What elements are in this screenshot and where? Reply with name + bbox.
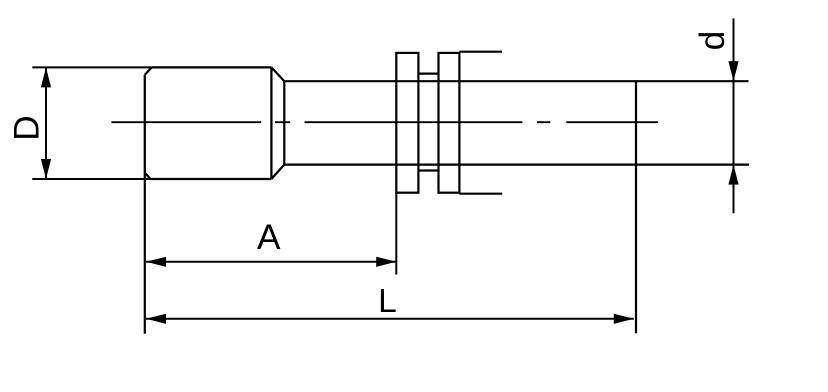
head-to-shaft taper top [271, 67, 284, 81]
dimension L extension line left [144, 179, 146, 334]
dimension D extension line bottom [32, 178, 150, 180]
head chamfer bottom-left [145, 173, 151, 179]
svg-text:D: D [7, 115, 46, 140]
head-to-shaft taper bottom [271, 165, 284, 179]
dimension A arrowhead right [376, 257, 396, 267]
ring 1 [396, 53, 418, 193]
shaft bottom edge (extends right as extension line for d) [284, 164, 749, 166]
dimension d arrowhead down [728, 61, 738, 81]
dimension L arrowhead right [614, 314, 634, 324]
shaft end cap [635, 81, 637, 164]
head left edge [144, 75, 146, 179]
shaft top edge (extends right as extension line for d) [284, 80, 748, 82]
sleeve bottom edge [418, 169, 438, 171]
dimension D arrowhead up [41, 67, 51, 87]
ring 2 [439, 53, 460, 193]
dimension A arrowhead left [146, 257, 166, 267]
dimension D label [7, 115, 46, 140]
dimension L extension line right [635, 165, 637, 334]
centerline [111, 121, 658, 123]
dimension D line [45, 67, 47, 179]
dimension L line [146, 318, 634, 320]
dimension D arrowhead down [41, 159, 51, 179]
dimension d arrowhead up [728, 165, 738, 185]
head bottom edge [150, 178, 271, 180]
svg-text:L: L [378, 283, 397, 320]
dimension D extension line top [32, 66, 151, 68]
head top edge [152, 66, 272, 68]
svg-text:d: d [693, 31, 732, 51]
head right edge [270, 67, 272, 179]
collar bottom line [459, 193, 502, 195]
collar top line [459, 51, 502, 53]
sleeve top edge [418, 72, 438, 74]
dimension d line [733, 18, 735, 213]
dimension A line [146, 261, 396, 263]
head chamfer top-left [145, 67, 152, 74]
dimension L arrowhead left [146, 314, 166, 324]
dimension A label [257, 218, 281, 257]
dimension A extension line right [395, 192, 397, 274]
dimension d label [693, 31, 732, 51]
svg-text:A: A [257, 218, 281, 257]
shaft start vertical [283, 81, 285, 164]
dimension L label [378, 283, 397, 320]
